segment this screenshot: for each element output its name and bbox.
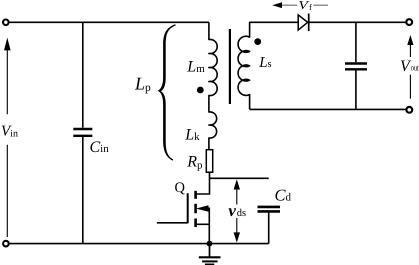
svg-text:Lk: Lk bbox=[184, 126, 200, 143]
wire bottom rail bbox=[10, 243, 269, 245]
svg-text:Q: Q bbox=[175, 180, 186, 196]
svg-text:Rp: Rp bbox=[186, 154, 203, 172]
annotation double arrow vds bbox=[234, 179, 240, 242]
channel body bar bbox=[194, 204, 197, 214]
gate lead bbox=[157, 222, 188, 224]
source vertical wire bbox=[208, 208, 210, 244]
transistor Q1 (MOSFET) bbox=[157, 191, 209, 244]
svg-text:ds: ds bbox=[237, 208, 246, 219]
svg-text:Lm: Lm bbox=[186, 59, 205, 76]
polarity dot secondary bbox=[254, 38, 261, 45]
svg-text:Vin: Vin bbox=[1, 124, 18, 140]
svg-text:Cin: Cin bbox=[90, 139, 110, 156]
annotation arrow Vin bbox=[4, 38, 11, 237]
svg-text:f: f bbox=[309, 2, 312, 12]
resistor Rp bbox=[206, 150, 212, 173]
capacitor Cin bbox=[73, 129, 92, 136]
svg-text:out: out bbox=[411, 62, 419, 72]
svg-text:Cd: Cd bbox=[275, 186, 292, 205]
wire top rail (primary side) bbox=[10, 21, 209, 23]
transformer core bbox=[229, 29, 231, 104]
annotation arrow Vout bbox=[407, 35, 413, 99]
terminal top-right bbox=[406, 19, 412, 25]
capacitor Cout bbox=[345, 64, 367, 70]
wire output capacitor branch bbox=[355, 22, 357, 109]
svg-text:Lp: Lp bbox=[134, 73, 151, 94]
terminal bottom-left bbox=[3, 241, 9, 247]
svg-text:Ls: Ls bbox=[258, 55, 271, 71]
capacitor Cd bbox=[258, 207, 281, 244]
body arrow bbox=[197, 206, 208, 212]
ground bbox=[199, 244, 221, 265]
brace Lp bbox=[158, 24, 176, 160]
gate bar bbox=[187, 193, 189, 223]
wire Cin branch vertical bbox=[82, 22, 84, 243]
svg-text:v: v bbox=[228, 201, 236, 220]
channel source bar bbox=[194, 219, 197, 228]
wire snubber branch (drain to Cd) bbox=[210, 177, 269, 179]
wire secondary bottom rail bbox=[250, 108, 406, 110]
terminal bottom-right bbox=[406, 107, 412, 113]
wire secondary top rail (diode to output) bbox=[309, 21, 406, 23]
junction dot source/ground node bbox=[207, 241, 213, 247]
wire drain node vertical bbox=[197, 172, 210, 194]
inductor Ls (secondary winding) bbox=[238, 22, 298, 109]
polarity dot primary bbox=[197, 87, 204, 94]
source lead bbox=[197, 223, 210, 225]
annotation arrow Vf bbox=[272, 2, 328, 8]
inductor Lm (primary magnetizing winding) bbox=[209, 22, 217, 149]
channel drain bar bbox=[194, 191, 197, 199]
diode D1 bbox=[298, 14, 309, 32]
terminal top-left bbox=[3, 20, 9, 26]
